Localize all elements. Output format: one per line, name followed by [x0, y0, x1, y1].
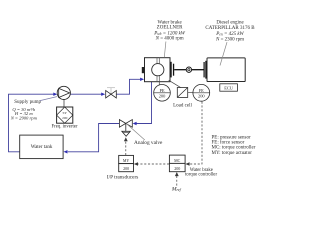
dashed wire: I/P transducer to analog valve actuator: [125, 141, 127, 155]
wire: water brake outlet down to analog valve: [136, 82, 151, 124]
coupling at engine: [204, 62, 205, 77]
wire: load cell to FE: [188, 92, 193, 94]
torque-meter coupling circle: [186, 67, 191, 72]
svg-text:N = 2900 rpm: N = 2900 rpm: [10, 116, 38, 121]
dashed wire: Mref input to MC: [176, 176, 178, 186]
svg-text:N = 4000 rpm: N = 4000 rpm: [155, 37, 184, 42]
svg-text:torque controller: torque controller: [185, 172, 218, 177]
arrow into MC box: [185, 162, 189, 166]
wire: brake to PE sensor: [158, 82, 160, 86]
shaft: [192, 69, 204, 71]
svg-text:200: 200: [159, 94, 166, 99]
arrow into water brake: [140, 78, 144, 81]
svg-text:Supply pump: Supply pump: [14, 100, 41, 105]
svg-text:Load cell: Load cell: [173, 104, 192, 109]
coupling at brake: [171, 62, 172, 78]
pointer line water brake label: [164, 42, 166, 58]
wire: analog valve to water tank: [68, 124, 120, 152]
arrow into I/P transducer box: [134, 162, 138, 166]
svg-text:MY: torque actuator: MY: torque actuator: [212, 151, 253, 156]
wire: tank suction to pump inlet: [9, 94, 54, 152]
water brake housing: [145, 58, 171, 82]
svg-text:CATERPILLAR 3176 B: CATERPILLAR 3176 B: [205, 26, 255, 31]
svg-text:I/P transducers: I/P transducers: [107, 174, 138, 180]
svg-text:200: 200: [174, 166, 180, 171]
arrow into MC bottom: [175, 172, 179, 176]
arrow into valve actuator: [124, 137, 128, 141]
svg-text:Analog valve: Analog valve: [134, 140, 163, 146]
svg-text:FE: FE: [199, 88, 204, 93]
dashed wire: MC to I/P transducers: [138, 163, 169, 165]
svg-text:Water brake: Water brake: [158, 20, 183, 25]
arrow into analog valve: [133, 122, 137, 125]
pointer line engine label: [220, 42, 227, 65]
wire: manual valve to water brake inlet: [116, 79, 140, 94]
svg-text:Diesel engine: Diesel engine: [216, 21, 244, 26]
dashed wire: FE200 to torque controller MC: [189, 102, 202, 164]
FE 200 force sensor: [193, 84, 210, 101]
torque controller MC box: [169, 155, 185, 163]
arrow into manual valve: [101, 93, 105, 96]
svg-text:MC: MC: [174, 158, 181, 163]
arrow into pump: [53, 93, 57, 96]
svg-text:MY: MY: [123, 158, 130, 163]
I/P transducer MY box: [119, 155, 134, 163]
pointer line analog valve: [126, 123, 145, 140]
svg-text:200: 200: [123, 166, 129, 171]
manual valve V1: [110, 88, 112, 94]
ECU box: [220, 84, 238, 91]
water tank: [20, 135, 63, 159]
lever arm to load cell: [169, 80, 182, 88]
water brake left stub: [142, 67, 145, 73]
svg-text:Pwb = 1200 kW: Pwb = 1200 kW: [153, 31, 186, 36]
svg-text:200: 200: [62, 116, 68, 120]
svg-text:Freq. inverter: Freq. inverter: [51, 124, 78, 129]
PE 200 pressure sensor: [154, 85, 171, 102]
analog valve: [119, 120, 125, 128]
svg-text:ZOELLNER: ZOELLNER: [157, 26, 183, 31]
wire: pump outlet to manual valve: [70, 93, 101, 95]
svg-text:Water tank: Water tank: [31, 145, 53, 150]
supply pump P1: [63, 100, 65, 108]
svg-text:Pen = 425 kW: Pen = 425 kW: [215, 32, 244, 37]
arrow into water tank: [64, 150, 68, 153]
frequency inverter box: [57, 107, 73, 123]
svg-text:200: 200: [198, 94, 205, 99]
svg-text:N = 2300 rpm: N = 2300 rpm: [215, 37, 244, 42]
svg-text:SY: SY: [62, 111, 67, 115]
svg-text:ECU: ECU: [224, 86, 234, 91]
svg-text:PE: PE: [159, 88, 164, 93]
shaft: [174, 69, 186, 71]
diesel engine box: [207, 58, 245, 82]
valve actuator: [122, 131, 131, 136]
pointer line supply pump: [40, 97, 57, 101]
svg-text:Mref: Mref: [171, 186, 182, 192]
load cell: [177, 88, 187, 98]
